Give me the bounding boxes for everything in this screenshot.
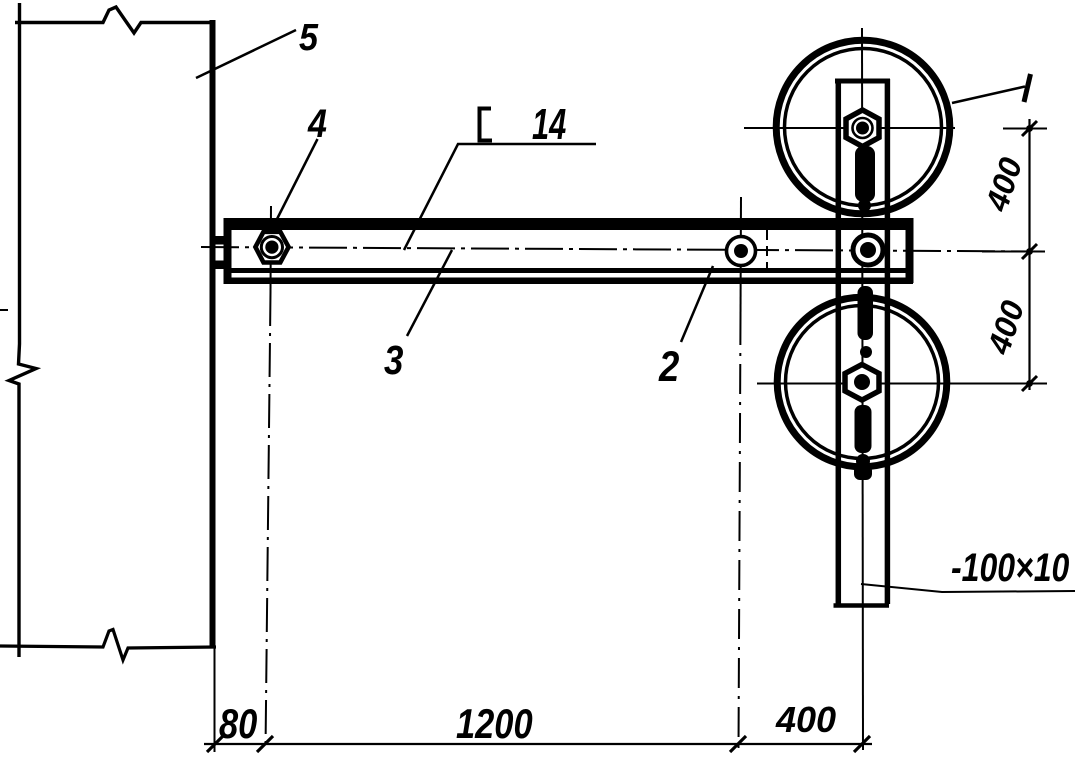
tick bottom right — [1022, 376, 1037, 391]
svg-text:4: 4 — [307, 100, 327, 145]
svg-text:5: 5 — [299, 15, 319, 58]
bottom dimension line — [204, 743, 872, 745]
leader 3 — [407, 250, 452, 336]
leader 1 — [952, 87, 1025, 104]
anchor nub top (washer at wall) — [215, 236, 225, 245]
bottom slot — [855, 405, 872, 453]
tick at bolt 4 — [257, 736, 273, 752]
bolt 4 hex nut — [255, 232, 288, 263]
beam bottom flange — [224, 278, 913, 285]
bolt 2 rings — [727, 237, 756, 266]
beam axis center line — [201, 247, 1045, 252]
extension line top — [1003, 128, 1047, 130]
tick middle right — [1022, 244, 1037, 259]
tick at strap axis — [854, 736, 870, 752]
beam right end cap — [906, 218, 914, 283]
middle slot end blob — [860, 346, 872, 358]
pulley bottom center line horizontal — [757, 383, 1047, 385]
beam (pos.3) top flange — [224, 218, 913, 230]
svg-text:3: 3 — [384, 338, 403, 383]
top slot end blob — [858, 199, 871, 212]
pulley 1 top inner rim — [785, 49, 942, 206]
bottom hex bolt — [845, 365, 879, 401]
beam left end cap — [224, 218, 232, 284]
pulley top center line horizontal — [744, 127, 955, 129]
column left edge with break — [9, 3, 36, 657]
pulley 1 top outer rim — [776, 40, 950, 214]
svg-text:-100×10: -100×10 — [951, 545, 1069, 590]
hidden edge line in beam — [766, 230, 768, 272]
bolt 2 center line vertical — [740, 197, 743, 315]
column face extension line to dimension — [214, 646, 216, 752]
middle slot — [858, 286, 874, 340]
strap center line vertical — [862, 28, 863, 750]
svg-text:400: 400 — [775, 699, 836, 740]
top hex bolt — [846, 110, 879, 147]
svg-text:1200: 1200 — [456, 701, 533, 748]
label 1 — [1024, 74, 1031, 102]
column bottom edge with break — [0, 630, 216, 661]
bottom slot blob — [856, 454, 870, 468]
tick at wall face — [207, 736, 223, 752]
anchor nub bottom — [215, 261, 225, 270]
callout C14 leader with shelf — [404, 144, 596, 250]
strap bottom edge — [834, 603, 890, 608]
beam inner bottom line — [224, 268, 913, 273]
bolt 4 center line vertical — [270, 206, 273, 292]
strap (pos.1 flat -100x10) top edge — [835, 79, 890, 84]
column top edge with break — [15, 7, 212, 33]
strap right edge — [885, 79, 891, 604]
pulley 2 bottom outer rim — [777, 297, 947, 467]
leader 2 — [681, 266, 713, 342]
right dimension line vertical — [1028, 119, 1030, 390]
extension line middle — [982, 251, 1045, 253]
svg-text:14: 14 — [532, 101, 566, 150]
top slot — [855, 146, 875, 202]
tick at bolt 2 — [730, 736, 746, 752]
leader 4 — [276, 139, 318, 222]
column face (pos.5 wall edge) — [210, 20, 216, 646]
middle bolt rings — [853, 235, 883, 265]
svg-text:80: 80 — [219, 701, 257, 748]
pulley 2 bottom inner rim — [786, 306, 939, 459]
tick top right — [1022, 121, 1037, 136]
channel section symbol — [480, 109, 493, 141]
leader -100x10 — [861, 584, 1075, 592]
leader 5 — [196, 30, 296, 78]
bottom slot foot — [854, 465, 872, 480]
strap left edge — [836, 79, 842, 604]
left edge tick mark — [0, 309, 8, 311]
svg-text:2: 2 — [658, 343, 679, 390]
